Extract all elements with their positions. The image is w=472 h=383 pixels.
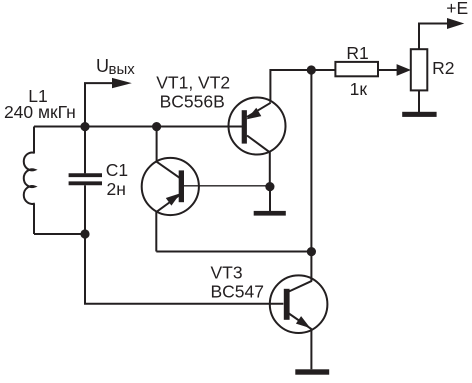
wire VT1 collector up: [156, 127, 158, 163]
wire VT2 collector to ground: [269, 186, 271, 211]
svg-text:VT1, VT2: VT1, VT2: [156, 72, 230, 92]
svg-text:240 мкГн: 240 мкГн: [4, 102, 76, 122]
svg-text:+E: +E: [446, 0, 468, 18]
capacitor C1: [69, 127, 102, 235]
wire node to VT3 base: [85, 234, 283, 304]
transistor VT1: [142, 158, 199, 215]
wire R2 bottom to ground: [418, 90, 420, 112]
+E arrowhead: [447, 18, 464, 29]
junction node at VT2 collector / VT1 base: [265, 182, 274, 191]
junction node at VT3 collector: [307, 247, 316, 256]
output arrowhead Uvyh: [112, 78, 132, 88]
junction node at VT1 collector: [152, 122, 161, 131]
svg-text:R2: R2: [432, 58, 454, 78]
svg-text:1к: 1к: [350, 79, 368, 99]
potentiometer R2: [411, 49, 428, 90]
svg-text:BC547: BC547: [211, 281, 265, 301]
wire VT1 emitter down: [155, 212, 157, 252]
junction node at R1 left: [307, 65, 316, 74]
ground under VT2: [254, 211, 286, 216]
wiper arrowhead into R2: [397, 64, 411, 76]
wire VT1 base to VT2 collector node: [184, 185, 266, 187]
svg-text:R1: R1: [346, 43, 368, 63]
wire VT2 emitter up and right to R1: [270, 70, 335, 103]
svg-text:VT3: VT3: [211, 263, 243, 283]
svg-text:C1: C1: [106, 160, 128, 180]
wire VT2 collector down: [269, 152, 271, 186]
resistor R1: [335, 62, 378, 76]
inductor L1: [24, 127, 35, 235]
wire R1 to R2 wiper: [378, 69, 399, 71]
wire VT3 emitter to ground: [310, 330, 312, 370]
junction node at C1 bottom: [80, 229, 89, 238]
ground under R2: [402, 112, 436, 117]
wire VT1 emitter to long vertical: [156, 251, 311, 253]
svg-text:2н: 2н: [107, 179, 126, 199]
wire output branch: [85, 83, 114, 126]
svg-text:BC556B: BC556B: [160, 92, 225, 112]
wire long vertical from R1 node down to VT3 collector: [310, 70, 312, 281]
wire main top horizontal: [34, 126, 244, 128]
wire L1 bottom to node: [34, 233, 85, 235]
transistor VT3: [270, 275, 328, 333]
wire R2 top to +E: [419, 24, 449, 50]
junction node at C1 top: [80, 122, 89, 131]
ground under VT3: [295, 369, 329, 374]
transistor VT2: [229, 98, 286, 155]
